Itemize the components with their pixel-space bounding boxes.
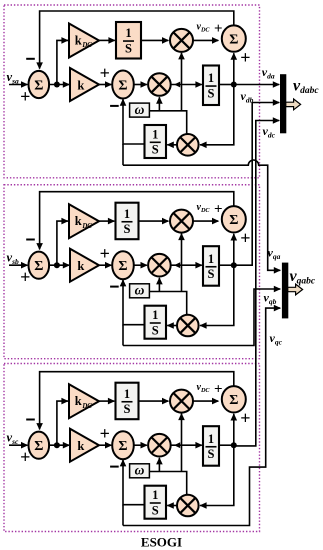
integrator 1/S (quadrature) block a <box>145 125 167 158</box>
wire multiplier to output summer, v_DC <box>193 39 218 41</box>
svg-text:1: 1 <box>124 387 130 401</box>
svg-text:ESOGI: ESOGI <box>141 535 182 550</box>
minus sign at summer S2 <box>110 286 119 288</box>
minus sign at summer S2 <box>110 466 119 468</box>
quadrature output wire to summer S2 minus input <box>123 99 145 144</box>
integrator 1/S (SOGI direct) block a <box>203 66 219 106</box>
svg-text:1: 1 <box>208 71 214 85</box>
multiplier M2a <box>148 73 171 96</box>
wire summer S2 to multiplier M2 <box>133 84 147 86</box>
summer S1a (input summing junction) <box>29 71 50 98</box>
svg-text:1: 1 <box>208 252 214 266</box>
wire from v-prime node down and left into multiplier M3 <box>200 445 234 505</box>
wire from v-prime node down and left into multiplier M3 <box>200 85 234 145</box>
feedback wire from output summer to input summer <box>40 192 234 250</box>
omega block c <box>130 464 150 478</box>
omega block a <box>130 103 150 117</box>
multiplier M2c <box>148 434 171 457</box>
input v_sb wire <box>9 264 27 266</box>
integrator 1/S (quadrature) block c <box>145 486 167 519</box>
omega distribution wire <box>149 292 186 315</box>
svg-text:DC: DC <box>81 42 92 49</box>
omega branch up into multiplier M2 <box>158 97 160 111</box>
wire multiplier M2 to integrator 1/S <box>172 84 202 86</box>
svg-text:S: S <box>152 323 159 337</box>
integrator 1/S (SOGI direct) block c <box>203 426 219 466</box>
wire gain k to summer S2 <box>99 444 111 446</box>
minus sign at input summer <box>26 58 35 60</box>
svg-text:S: S <box>152 503 159 517</box>
minus sign at input summer <box>26 419 35 421</box>
svg-text:1: 1 <box>152 127 158 141</box>
svg-text:1: 1 <box>152 488 158 502</box>
omega distribution wire <box>149 472 186 495</box>
wire kDC to integrator <box>99 220 114 222</box>
wire node up to output summer <box>233 234 235 265</box>
wire node up to gain kDC <box>57 40 68 84</box>
svg-text:Σ: Σ <box>34 439 43 454</box>
block b quadrature feedback wire to v_qb riser <box>123 289 280 346</box>
svg-text:S: S <box>208 447 215 461</box>
omega branch up into multiplier M2 <box>158 458 160 472</box>
SOGI block phase a dotted boundary <box>4 5 260 178</box>
wire from v-prime node down and left into multiplier M3 <box>200 265 234 325</box>
svg-text:+: + <box>100 244 110 264</box>
svg-text:Σ: Σ <box>229 32 238 47</box>
svg-text:k: k <box>75 394 82 408</box>
svg-text:S: S <box>208 86 215 100</box>
v_dabc bus bar <box>280 74 286 133</box>
omega arrow into multiplier M2 right side <box>174 442 180 448</box>
wire node up to output summer <box>233 53 235 84</box>
wire summer to gain k <box>48 84 69 86</box>
node N2b (v-prime output) <box>231 262 237 268</box>
output summer S3a <box>222 25 246 51</box>
wire multiplier to output summer, v_DC <box>193 220 218 222</box>
multiplier M3a (quadrature x omega) <box>177 134 199 156</box>
svg-text:+: + <box>240 408 250 428</box>
block a wire from quadrature junction down <box>122 144 124 165</box>
summer S1b (input summing junction) <box>29 252 50 279</box>
svg-text:1: 1 <box>152 308 158 322</box>
node N2c (v-prime output) <box>231 442 237 448</box>
minus sign at summer S2 <box>110 105 119 107</box>
block b wire from quadrature junction down <box>122 325 124 346</box>
wire integrator to multiplier <box>139 400 169 402</box>
integrator 1/S (SOGI direct) block b <box>203 246 219 286</box>
multiplier M2b <box>148 254 171 277</box>
feedback wire from output summer to input summer <box>40 11 234 69</box>
arrow v_qb into v_qabc bus <box>274 286 281 293</box>
minus sign at input summer <box>26 239 35 241</box>
SOGI block phase b dotted boundary <box>4 185 260 359</box>
node N1a (error signal branch) <box>54 82 60 88</box>
node N2a (v-prime output) <box>231 82 237 88</box>
svg-text:S: S <box>124 402 131 416</box>
v_qabc bus bar <box>282 263 288 319</box>
omega arrow into multiplier M2 right side <box>174 82 180 88</box>
input v_sc wire <box>9 444 27 446</box>
omega branch up into multiplier M2 <box>158 278 160 292</box>
output summer S3c <box>222 386 246 412</box>
svg-text:1: 1 <box>125 26 131 40</box>
SOGI block phase c dotted boundary <box>4 364 260 532</box>
gain kDCc triangle <box>69 384 99 418</box>
svg-text:1: 1 <box>124 207 130 221</box>
wire summer S2 to multiplier M2 <box>133 264 147 266</box>
wire v_db riser from block b output node to v_dabc bus <box>234 103 279 266</box>
node N1c (error signal branch) <box>54 442 60 448</box>
svg-text:+: + <box>240 228 250 248</box>
svg-text:k: k <box>75 34 82 48</box>
omega block b <box>130 284 150 298</box>
svg-text:S: S <box>125 41 132 55</box>
wire integrator output to node <box>219 264 234 266</box>
wire multiplier M3 to quadrature integrator <box>167 144 177 146</box>
wire multiplier to output summer, v_DC <box>193 400 218 402</box>
wire integrator to multiplier <box>139 220 169 222</box>
svg-text:ω: ω <box>135 283 145 298</box>
omega arrow into multiplier M2 right side <box>174 262 180 268</box>
svg-text:S: S <box>124 222 131 236</box>
svg-text:ω: ω <box>135 463 145 478</box>
svg-text:k: k <box>75 214 82 228</box>
svg-text:ω: ω <box>135 102 145 117</box>
gain kDCb triangle <box>69 204 99 238</box>
wire kDC to integrator <box>99 39 115 41</box>
wire v_dc riser from block c output node to v_dabc bus <box>234 121 279 446</box>
svg-text:+: + <box>100 63 110 83</box>
summer S2a <box>112 71 134 99</box>
wire node up to gain kDC <box>57 401 68 445</box>
svg-text:k: k <box>77 79 84 93</box>
svg-text:S: S <box>152 143 159 157</box>
block a quadrature feedback wire with hop to v_qa riser <box>123 160 280 270</box>
block c quadrature feedback wire to v_qc riser <box>123 308 280 525</box>
wire summer to gain k <box>48 444 69 446</box>
wire summer to gain k <box>48 264 69 266</box>
svg-text:Σ: Σ <box>118 439 127 454</box>
svg-text:Σ: Σ <box>229 213 238 228</box>
node N1b (error signal branch) <box>54 262 60 268</box>
v_qabc outline arrow <box>288 284 303 295</box>
wire multiplier M2 to integrator 1/S <box>172 264 202 266</box>
wire gain k to summer S2 <box>99 264 111 266</box>
omega branch up into multiplier M1 <box>181 234 183 292</box>
integrator 1/S (DC branch) block a <box>116 22 141 59</box>
wire node up to gain kDC <box>57 221 68 265</box>
summer S2b <box>112 251 134 279</box>
arrow v_qc into v_qabc bus <box>274 305 281 312</box>
svg-text:Σ: Σ <box>34 259 43 274</box>
wire integrator output to node <box>219 444 234 446</box>
integrator 1/S (DC branch) block b <box>116 203 139 240</box>
gain kb triangle <box>70 249 99 282</box>
svg-text:DC: DC <box>81 403 92 410</box>
multiplier M3c (quadrature x omega) <box>177 495 199 517</box>
quadrature output wire to summer S2 minus input <box>123 280 145 325</box>
svg-text:+: + <box>240 47 250 67</box>
wire multiplier M3 to quadrature integrator <box>167 325 177 327</box>
wire multiplier M3 to quadrature integrator <box>167 505 177 507</box>
wire node up to output summer <box>233 414 235 445</box>
wire multiplier M2 to integrator 1/S <box>172 444 202 446</box>
input v_sa wire <box>9 84 27 86</box>
omega distribution wire <box>149 111 186 134</box>
wire gain k to summer S2 <box>99 84 111 86</box>
gain ka triangle <box>70 68 99 101</box>
wire summer S2 to multiplier M2 <box>133 444 147 446</box>
svg-text:DC: DC <box>81 223 92 230</box>
multiplier M1b (DC x omega) <box>170 210 193 233</box>
feedback wire from output summer to input summer <box>40 372 234 430</box>
omega branch up into multiplier M1 <box>181 414 183 472</box>
quadrature output wire to summer S2 minus input <box>123 460 145 505</box>
wire kDC to integrator <box>99 400 114 402</box>
svg-text:k: k <box>77 259 84 273</box>
svg-text:Σ: Σ <box>229 393 238 408</box>
svg-text:Σ: Σ <box>34 78 43 93</box>
wire v_da from block a output node to v_dabc bus <box>234 84 279 86</box>
svg-text:k: k <box>77 439 84 453</box>
block c wire from quadrature junction down <box>122 505 124 526</box>
summer S2c <box>112 431 134 459</box>
svg-text:Σ: Σ <box>118 78 127 93</box>
multiplier M3b (quadrature x omega) <box>177 315 199 337</box>
svg-text:S: S <box>208 267 215 281</box>
summer S1c (input summing junction) <box>29 432 50 459</box>
wire integrator to multiplier <box>141 39 168 41</box>
integrator 1/S (quadrature) block b <box>145 306 167 339</box>
multiplier M1a (DC x omega) <box>170 29 193 52</box>
wire integrator output to node <box>219 84 234 86</box>
omega branch up into multiplier M1 <box>181 53 183 111</box>
integrator 1/S (DC branch) block c <box>116 383 139 420</box>
output summer S3b <box>222 206 246 232</box>
gain kDCa triangle <box>69 24 99 58</box>
arrow v_qa into v_qabc bus <box>274 267 281 274</box>
v_dabc outline arrow <box>286 99 301 110</box>
svg-text:+: + <box>100 424 110 444</box>
svg-text:1: 1 <box>208 432 214 446</box>
gain kc triangle <box>70 429 99 462</box>
multiplier M1c (DC x omega) <box>170 390 193 413</box>
svg-text:Σ: Σ <box>118 259 127 274</box>
